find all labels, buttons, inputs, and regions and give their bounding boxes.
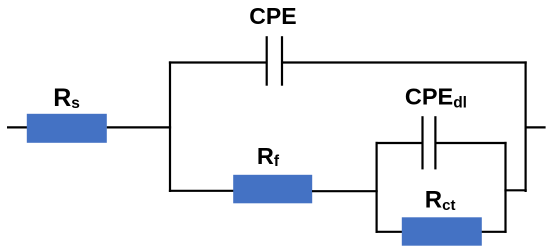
svg-text:Rs: Rs: [53, 84, 80, 112]
wire inner right bus: [504, 142, 506, 233]
wire Rf to inner left bus: [312, 190, 378, 192]
svg-text:CPEdl: CPEdl: [405, 83, 467, 111]
capacitor CPE: [267, 36, 282, 85]
wire inner top branch right: [435, 142, 506, 144]
wire inner top branch left: [376, 142, 423, 144]
resistor Rs: [27, 114, 107, 143]
wire top branch left: [169, 61, 267, 63]
svg-text:Rct: Rct: [425, 186, 456, 213]
wire left stub: [7, 126, 28, 128]
wire inner left bus: [376, 142, 378, 233]
wire Rs to left bus: [107, 126, 171, 128]
wire inner bottom branch: [376, 231, 507, 233]
wire left bus: [169, 61, 171, 192]
svg-text:CPE: CPE: [249, 3, 296, 29]
capacitor CPEdl: [423, 116, 436, 169]
resistor Rf: [233, 175, 312, 204]
svg-text:Rf: Rf: [257, 143, 280, 170]
wire top branch right: [282, 61, 527, 63]
wire right bus: [524, 61, 526, 192]
wire right stub: [526, 126, 546, 128]
wire bottom branch left: [169, 190, 234, 192]
resistor Rct: [402, 217, 482, 245]
wire inner right bus to right bus: [504, 189, 526, 191]
